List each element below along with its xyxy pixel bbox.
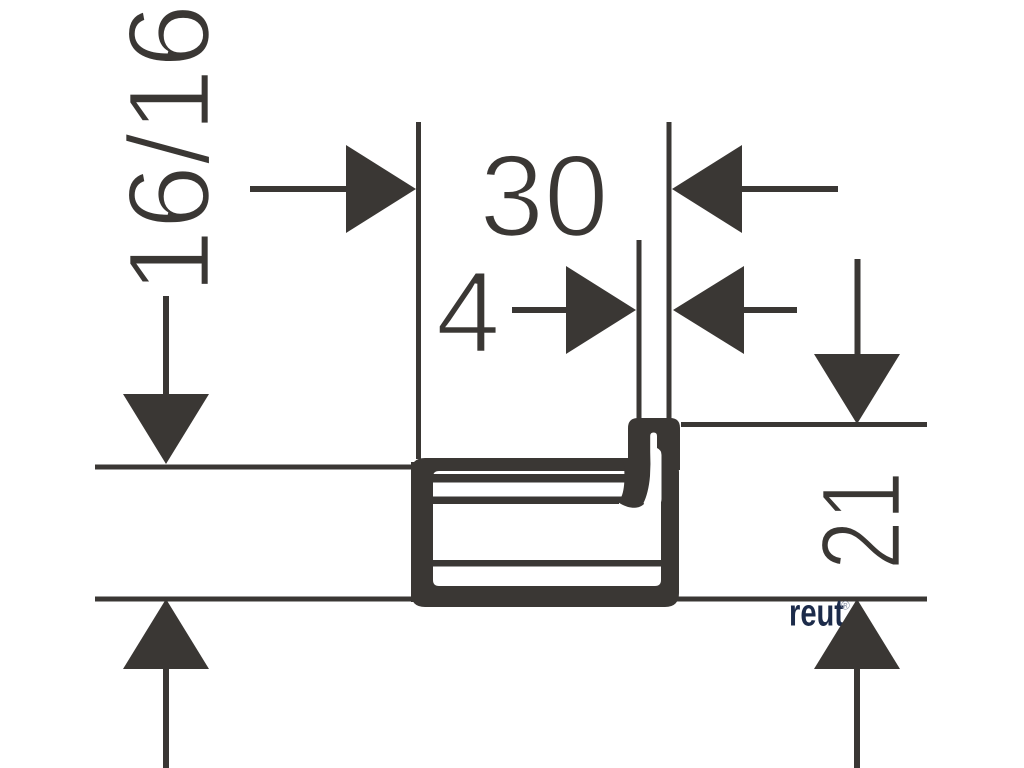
extension line x669 bbox=[667, 122, 672, 420]
wall bar profile: outer body ring bbox=[411, 458, 679, 607]
svg-text:®: ® bbox=[841, 599, 850, 613]
profile: hook lip (J-curve) bbox=[616, 458, 656, 508]
svg-text:4: 4 bbox=[436, 247, 501, 377]
left dimension leader (upper) bbox=[163, 296, 169, 397]
extension line x639 bbox=[637, 240, 642, 419]
4 dimension: left leader bbox=[512, 307, 568, 313]
svg-text:21: 21 bbox=[798, 471, 924, 570]
left down arrowhead bbox=[123, 394, 209, 464]
30 dimension: left leader bbox=[250, 186, 348, 192]
svg-text:reut: reut bbox=[789, 593, 844, 635]
svg-text:30: 30 bbox=[479, 131, 608, 261]
profile: left wall thickening bbox=[411, 462, 433, 602]
profile: inner line 1 bbox=[433, 474, 625, 483]
right dimension leader (upper) bbox=[855, 259, 861, 356]
extension line x418 bbox=[416, 122, 421, 459]
bottom dimension line y599 bbox=[95, 597, 927, 602]
4 dimension row: left-pointing arrowhead at x669 bbox=[673, 266, 744, 354]
right dimension leader (lower) bbox=[854, 667, 860, 768]
4 dimension row: right leader bbox=[743, 307, 797, 313]
30 dimension: right leader bbox=[742, 186, 838, 192]
profile: hook blob top-right bbox=[628, 418, 680, 470]
profile: inner line 3 bbox=[433, 560, 661, 567]
30 dimension: right arrowhead bbox=[672, 145, 742, 233]
30 dimension: left arrowhead bbox=[346, 145, 416, 233]
svg-text:16/16: 16/16 bbox=[104, 4, 234, 294]
left dimension line y467 bbox=[95, 465, 413, 470]
profile: inner line 2 bbox=[433, 497, 619, 505]
profile: white slot and channel bbox=[644, 433, 662, 508]
right down arrowhead bbox=[814, 354, 900, 424]
top-right dimension line y424 bbox=[681, 422, 927, 427]
right up arrowhead bbox=[814, 599, 900, 669]
4 dimension: right arrowhead (points right) bbox=[566, 266, 636, 354]
left dimension leader (lower) bbox=[163, 667, 169, 768]
left up arrowhead bbox=[123, 599, 209, 669]
